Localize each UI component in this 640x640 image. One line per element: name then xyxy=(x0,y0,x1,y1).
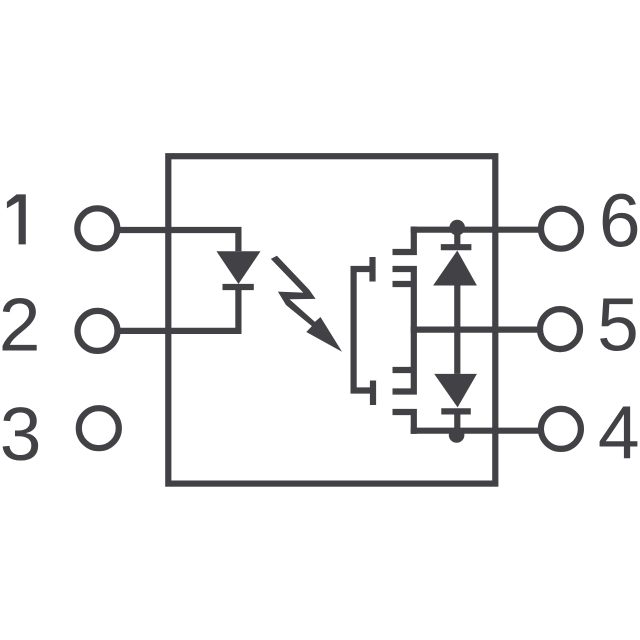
gate plate Q2 xyxy=(370,381,376,406)
body diode DB2 stem top xyxy=(454,330,460,374)
MOSFET Q2 drain path (bottom dash to bottom rail) xyxy=(393,412,414,434)
body diode DB1 stem bottom xyxy=(454,286,460,330)
light emission arrow xyxy=(271,256,342,352)
MOSFET Q1 source dash xyxy=(393,281,414,287)
MOSFET Q2 source dash xyxy=(393,367,414,373)
svg-text:4: 4 xyxy=(598,390,640,474)
body diode DB1 stem top xyxy=(454,230,460,245)
body diode DB2 stem bottom xyxy=(454,411,460,430)
pin number 1 xyxy=(7,194,26,244)
MOSFET Q1 drain path (top dash to top rail) xyxy=(393,227,414,253)
junction dot top node xyxy=(449,220,465,236)
LED D1 cathode bar xyxy=(223,284,254,290)
body diode DB2 cathode bar xyxy=(441,408,471,414)
bottom rail to pin 4 xyxy=(411,428,539,434)
LED D1 triangle xyxy=(217,251,261,284)
pin 3 terminal circle xyxy=(79,408,119,448)
pin 6 terminal circle xyxy=(541,209,581,249)
svg-text:5: 5 xyxy=(597,282,639,366)
svg-text:2: 2 xyxy=(0,283,40,367)
body diode DB1 cathode bar xyxy=(441,244,472,250)
pin 4 terminal circle xyxy=(541,409,581,449)
pin 5 terminal circle xyxy=(540,309,580,349)
body diode DB2 triangle (down) xyxy=(434,374,477,408)
gate plate Q1 xyxy=(369,257,375,282)
gate drive bracket xyxy=(354,269,373,391)
wire LED cathode to pin2 xyxy=(119,284,238,331)
middle rail to pin 5 xyxy=(411,327,538,333)
junction dot bottom node xyxy=(449,427,465,443)
svg-text:6: 6 xyxy=(599,178,640,262)
pin 2 terminal circle xyxy=(78,311,118,351)
wire pin1 to LED anode xyxy=(119,230,238,251)
pin 1 terminal circle xyxy=(77,208,117,248)
body diode DB1 triangle (up) xyxy=(433,251,477,286)
IC package body outline xyxy=(168,156,495,483)
svg-text:3: 3 xyxy=(0,392,41,476)
top rail to pin 6 xyxy=(411,227,539,233)
MOSFET common source vertical with body dashes xyxy=(393,269,414,392)
